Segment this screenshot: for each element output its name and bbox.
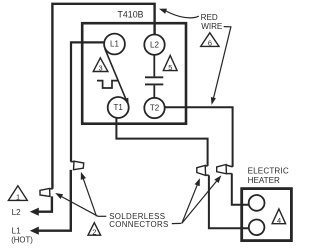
capacitor bottom plate	[145, 83, 163, 85]
leader to lower-left connector	[60, 196, 99, 217]
thermostat box T410B	[82, 23, 186, 124]
svg-text:L1: L1	[110, 40, 119, 49]
svg-text:L1: L1	[12, 226, 22, 235]
arrowhead right-pair right connector	[214, 175, 221, 183]
svg-text:HEATER: HEATER	[248, 176, 280, 185]
wire from connector down to L1 lead-out	[39, 170, 71, 231]
heater terminal top	[249, 195, 265, 211]
svg-text:WIRE: WIRE	[201, 22, 223, 31]
solderless connector on L2 line (lower-left)	[40, 188, 50, 196]
svg-text:6: 6	[208, 39, 212, 48]
triangle 3	[93, 58, 108, 72]
wire T1 down and right	[116, 118, 207, 166]
arrowhead at upper-left connector	[81, 172, 86, 180]
triangle 6	[201, 33, 219, 47]
wire from L1 terminal: left then down	[71, 42, 104, 161]
terminal T2	[144, 98, 164, 118]
wire connector down into heater bottom terminal	[209, 175, 249, 228]
leader to upper-left connector	[83, 177, 97, 217]
wire red-wire path: L2 up, across top, down left side	[52, 4, 154, 189]
heater terminal bottom	[249, 220, 265, 236]
capacitor top plate	[145, 76, 163, 78]
arrowhead L2 lead (points left)	[30, 208, 39, 216]
switch blade L1 to T1	[105, 49, 128, 103]
leader stub left of SOLDERLESS	[98, 215, 106, 217]
svg-text:T2: T2	[150, 104, 160, 113]
svg-text:L2: L2	[12, 208, 22, 217]
svg-text:L2: L2	[150, 40, 159, 49]
arrowhead right-pair left connector	[195, 178, 200, 186]
wire from connector down to L2 lead-out	[39, 196, 52, 211]
svg-text:2: 2	[92, 227, 96, 236]
leader WIRE down to heater wire	[213, 27, 231, 103]
terminal L1	[104, 34, 125, 55]
solderless connector on L1 line (upper-left)	[74, 161, 84, 170]
arrowhead pointing at T2 wire	[211, 97, 216, 105]
wire L2 to capacitor	[153, 55, 155, 77]
solderless connector on T1 line (right pair, left one)	[197, 165, 206, 175]
leader to right-pair right connector	[182, 180, 218, 223]
wire capacitor to T2	[153, 85, 155, 97]
switch blade arrowhead at T1	[124, 98, 128, 104]
leader RED WIRE to top corner	[165, 11, 199, 18]
svg-text:CONNECTORS: CONNECTORS	[109, 220, 168, 229]
heater box	[242, 189, 292, 241]
leader to right-pair left connector	[182, 182, 199, 223]
triangle 1	[8, 186, 27, 201]
triangle 2	[88, 223, 101, 236]
svg-text:4: 4	[277, 216, 281, 225]
leader stub right of CONNECTORS	[172, 222, 181, 224]
svg-text:5: 5	[168, 63, 172, 72]
heat anticipator symbol	[97, 81, 118, 88]
svg-text:1: 1	[16, 193, 20, 202]
triangle 5	[163, 55, 177, 70]
svg-text:T410B: T410B	[118, 10, 144, 20]
svg-text:(HOT): (HOT)	[11, 236, 33, 245]
svg-text:ELECTRIC: ELECTRIC	[248, 166, 289, 175]
solderless connector on T2 line (right pair, right one)	[217, 165, 227, 174]
arrowhead L1 lead (points left)	[30, 227, 39, 235]
wire T2 to heater: right then down	[165, 107, 233, 167]
arrowhead at lower-left connector	[55, 193, 63, 199]
triangle 4	[272, 209, 286, 224]
svg-text:3: 3	[99, 64, 103, 73]
terminal T1	[108, 97, 129, 118]
svg-text:RED: RED	[201, 13, 218, 22]
terminal L2	[144, 35, 164, 55]
arrowhead at red wire corner	[159, 9, 167, 14]
svg-text:T1: T1	[114, 103, 124, 112]
wire connector down into heater top terminal	[232, 173, 249, 204]
